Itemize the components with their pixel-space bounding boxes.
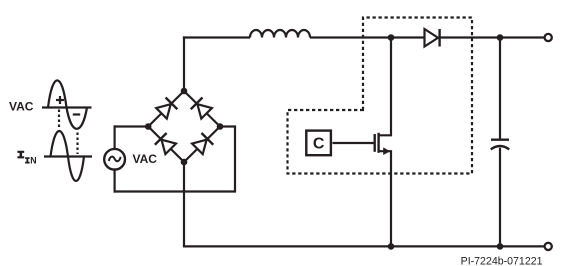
wire AC source lower vertical — [113, 168, 115, 192]
output capacitor bottom curved plate — [491, 146, 509, 149]
MOSFET Q1 gate bar — [374, 134, 376, 152]
dashed guide line right — [76, 133, 78, 155]
wire output vertical upper (to capacitor) — [499, 38, 501, 140]
junction node bridge bottom — [181, 159, 188, 166]
svg-text:C: C — [313, 135, 325, 152]
output capacitor top plate — [491, 138, 509, 140]
AC source tilde — [109, 157, 121, 162]
VAC waveform axis — [42, 106, 92, 108]
boost diode cathode bar — [438, 29, 440, 47]
bridge arm wire left-top — [148, 91, 184, 127]
svg-text:VAC: VAC — [9, 100, 34, 114]
MOSFET Q1 drain lead — [379, 38, 391, 135]
wire top-left horizontal (bridge top to inductor) — [183, 36, 250, 38]
junction node bridge left — [145, 123, 152, 130]
svg-text:PI-7224b-071221: PI-7224b-071221 — [461, 256, 543, 266]
svg-text:N: N — [30, 156, 36, 166]
wire top right (boost diode cathode to output terminal) — [441, 36, 545, 38]
bridge arm wire bottom-left — [148, 127, 184, 163]
junction node source bottom — [388, 243, 395, 250]
MOSFET Q1 source arrow — [383, 147, 390, 155]
minus sign — [73, 113, 80, 115]
wire right node vertical down — [234, 127, 236, 193]
bridge diode D1 (left node to top node) — [156, 98, 178, 120]
junction node capacitor top — [497, 34, 504, 41]
bridge diode D4 (bottom node to right node) — [192, 133, 214, 155]
wire output vertical lower (capacitor to bottom rail) — [499, 148, 501, 247]
VAC waveform sine — [48, 80, 87, 128]
AC source circle — [104, 149, 125, 170]
wire gate lead — [333, 142, 374, 144]
dashed guide line left — [58, 110, 60, 130]
wire bottom rail horizontal — [183, 245, 545, 247]
bridge arm wire top-right — [184, 91, 220, 127]
label I_IN — [17, 151, 36, 166]
output terminal minus — [545, 243, 552, 250]
bridge arm wire bottom-right — [184, 127, 220, 163]
wire bridge bottom node vertical down — [183, 161, 185, 246]
controller block C box — [306, 131, 331, 156]
bridge diode D3 (bottom node to left node) — [155, 133, 177, 155]
dashed IC outline — [288, 18, 473, 174]
junction node capacitor bottom — [497, 243, 504, 250]
svg-text:VAC: VAC — [133, 152, 158, 166]
MOSFET Q1 channel bar — [377, 133, 379, 153]
wire right node stub — [219, 125, 236, 127]
wire AC loop bottom horizontal — [114, 190, 237, 192]
junction node bridge right — [217, 123, 224, 130]
junction node drain top — [388, 34, 395, 41]
boost diode triangle — [425, 29, 439, 47]
wire AC source upper vertical — [113, 125, 115, 150]
I_IN waveform sine — [51, 131, 85, 181]
wire bridge left node to AC source top corner — [114, 125, 149, 127]
plus sign — [56, 96, 64, 104]
bridge diode D2 (right node to top node) — [191, 98, 213, 120]
output terminal plus — [545, 34, 552, 41]
wire top middle (inductor to boost diode anode) — [310, 36, 425, 38]
wire left vertical (top corner down to bridge top node) — [183, 36, 185, 91]
MOSFET Q1 source lead — [379, 151, 391, 246]
junction node bridge top — [181, 88, 188, 95]
inductor L — [250, 30, 310, 37]
I_IN waveform axis — [44, 155, 92, 157]
